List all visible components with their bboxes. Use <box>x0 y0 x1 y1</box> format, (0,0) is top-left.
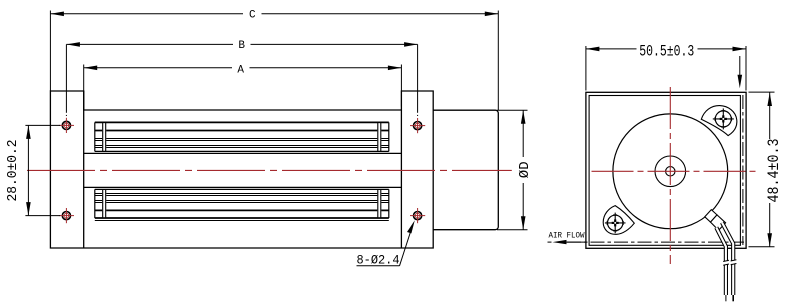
red horizontal centerline of fan axis <box>27 169 512 171</box>
svg-text:28.0±0.2: 28.0±0.2 <box>5 140 21 202</box>
right inlet centerline (black dash-dot) <box>742 95 744 245</box>
extension line A left <box>83 65 85 92</box>
extension line 50.5 left <box>585 46 587 91</box>
extension line C right <box>497 11 499 111</box>
air flow arrow <box>553 240 567 244</box>
extension line 48.4 bottom <box>749 246 775 248</box>
dimension A line <box>84 67 402 69</box>
extension line A right <box>400 65 402 107</box>
top outlet grille <box>95 122 389 151</box>
wire break marks <box>722 260 737 265</box>
mounting hole top-left <box>59 118 74 133</box>
dimension 50.5±0.3 arrows <box>586 47 746 52</box>
note 8-Ø2.4 leader arrow <box>407 220 415 233</box>
red vertical centerline <box>669 87 671 264</box>
dimension B arrows <box>66 42 417 47</box>
grille slat line <box>95 209 389 211</box>
grille frame bottom line <box>95 150 389 152</box>
air inlet down arrow <box>739 56 741 78</box>
lead wire right <box>722 223 733 296</box>
screw top-right <box>713 108 734 129</box>
extension line C left <box>49 11 51 92</box>
dimension 28.0±0.2 arrows <box>26 125 31 215</box>
shaft circle <box>666 167 675 176</box>
dimension 48.4±0.3 line <box>769 93 771 247</box>
fan housing outline with mounting flanges <box>50 91 433 248</box>
extension line 50.5 right <box>745 46 747 91</box>
bottom outlet centerline (black dash-dot) <box>567 241 744 243</box>
screw boss bottom-left <box>603 206 634 235</box>
note 8-Ø2.4 underline <box>357 265 400 267</box>
wire terminal tab <box>705 210 726 231</box>
bottom grille left rib (white bar) <box>102 189 106 218</box>
svg-text:B: B <box>238 40 245 52</box>
grille slat line <box>95 193 389 195</box>
mounting hole bottom-right <box>410 208 425 223</box>
dimension C line <box>50 13 498 15</box>
mounting hole top-right <box>410 118 425 133</box>
impeller circle <box>613 114 728 229</box>
note 8-Ø2.4 leader line <box>400 227 413 266</box>
screw bottom-left <box>605 213 626 234</box>
grille frame top line <box>95 188 389 190</box>
grille slat line <box>95 145 389 147</box>
bottom outlet grille <box>95 189 389 220</box>
extension line B right (hole centerline) <box>417 44 419 116</box>
right flange inner edge <box>400 110 402 248</box>
grille slat line <box>95 202 389 204</box>
dimension 50.5±0.3 line <box>586 48 746 50</box>
air flow arrow line <box>565 241 586 243</box>
dimension B line <box>66 43 417 45</box>
svg-text:50.5±0.3: 50.5±0.3 <box>639 42 694 60</box>
extension line B left (hole centerline) <box>65 44 67 116</box>
grille frame bottom line <box>95 217 389 219</box>
top grille right rib (white bar) <box>377 122 381 151</box>
extension line 28 bottom <box>25 215 60 217</box>
rotor hub circle <box>655 156 686 187</box>
left flange inner edge <box>83 91 85 248</box>
side cover outer wall <box>586 92 746 248</box>
motor housing <box>433 110 498 230</box>
side cover inner wall <box>589 96 740 246</box>
extension line ØD top <box>497 109 528 111</box>
grille slat line <box>95 147 389 149</box>
svg-text:AIR FLOW: AIR FLOW <box>549 231 586 241</box>
air flow arrow dash <box>548 241 552 243</box>
dimension ØD line <box>522 110 524 230</box>
dimension A arrows <box>84 66 402 71</box>
grille lip line <box>95 220 389 222</box>
red horizontal centerline <box>592 170 760 172</box>
extension line 28 top <box>25 124 60 126</box>
grille frame top line <box>95 121 389 123</box>
top grille end frames <box>95 122 389 151</box>
bottom grille right rib (white bar) <box>377 189 381 218</box>
dimension C arrows <box>50 12 498 17</box>
bottom grille end frames <box>95 189 389 218</box>
dimension ØD arrows <box>521 110 526 230</box>
central band top line <box>84 152 402 154</box>
screw boss top-right <box>701 106 737 136</box>
wire bare tips <box>726 295 733 301</box>
grille slat line <box>95 140 389 142</box>
svg-text:C: C <box>249 10 256 22</box>
svg-text:A: A <box>237 64 244 76</box>
grille slat line <box>95 200 389 202</box>
grille slat line <box>95 138 389 140</box>
svg-text:48.4±0.3: 48.4±0.3 <box>765 139 783 203</box>
extension line ØD bottom <box>497 229 528 231</box>
top grille left rib (white bar) <box>102 122 106 151</box>
mounting hole bottom-left <box>59 208 74 223</box>
extension line 48.4 top <box>749 91 775 93</box>
dimension 48.4±0.3 arrows <box>767 93 772 247</box>
grille slat line <box>95 195 389 197</box>
grille slat line <box>95 130 389 132</box>
svg-text:ØD: ØD <box>517 161 533 178</box>
lead wire left <box>716 228 726 296</box>
central band bottom line <box>84 186 402 188</box>
dimension 28.0±0.2 line <box>27 125 29 215</box>
